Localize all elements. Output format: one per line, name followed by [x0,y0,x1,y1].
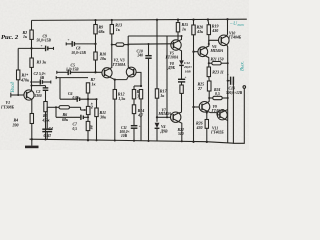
wire R13 to pill node [111,34,113,45]
wire R8 to rail [87,131,89,141]
resistor R19 [207,25,210,35]
capacitor C6 [60,92,97,102]
wire emitter feedback line [56,77,88,79]
input terminal [10,93,12,98]
transistor V3 [126,65,136,77]
ground [31,139,33,145]
wire V9 emitter to V11 base [208,111,220,115]
resistor R22b [207,81,211,91]
wire R16 link [134,85,141,87]
wire R9 to C8 node [95,34,97,52]
resistor R6 horizontal [59,106,70,109]
wire trimmer to R8b [87,115,89,122]
transistor V11 [210,110,227,134]
capacitor C8 [66,38,95,55]
resistor R3 [30,58,33,67]
wire R7 to node [87,93,89,106]
resistor R23 [207,67,210,77]
wire diode to C12 [181,65,183,79]
trimmer R8 [81,102,95,115]
transistor V2 [102,68,112,78]
svg-text:С8: С8 [76,46,81,50]
wire top link to driver [128,35,181,37]
svg-text:0,5: 0,5 [215,92,220,96]
svg-text:R3 3к: R3 3к [37,60,48,65]
resistor R1 [17,70,20,80]
capacitor C3 [32,86,49,102]
wire R15 to V5 collector [177,32,179,40]
capacitor C12 [178,78,185,80]
wire output loop [233,81,244,144]
capacitor C7 [56,115,88,131]
wire V10 collector to rail [226,19,229,36]
svg-text:+: + [68,38,70,42]
transistor V5 [165,40,182,60]
svg-text:R8: R8 [90,125,94,129]
svg-text:6В: 6В [40,76,45,80]
node rail R15 column [177,19,179,21]
svg-text:пит: пит [238,23,245,27]
wire V7 base [157,116,170,118]
wire V2 collector up [110,45,112,69]
resistor R14 pill horizontal [116,43,124,46]
svg-text:Вых.: Вых. [241,61,246,71]
svg-text:1,0×15В: 1,0×15В [66,67,79,71]
svg-text:0,5П: 0,5П [44,134,51,138]
resistor R24 0,5 pill [213,96,222,99]
wire top supply rail [32,19,247,20]
wire R4 to rail [31,124,33,140]
wire R2 to node [31,39,33,58]
wire V5 collector to top link [179,36,182,41]
wire R19 to V6 collector node [208,35,210,44]
svg-text:4,7к: 4,7к [90,102,94,109]
diode V4 [155,123,168,142]
svg-text:МП40А: МП40А [158,112,172,116]
wire R3 down to V1 collector [31,67,33,91]
resistor R12 [113,90,116,100]
wire R20 column down [193,35,195,142]
svg-text:Рис. 2: Рис. 2 [1,34,19,41]
capacitor C10 [137,43,152,142]
svg-text:R23 11: R23 11 [212,69,223,74]
svg-text:390: 390 [12,122,19,127]
node rail R13 column [111,19,113,21]
svg-text:ГТ404Б: ГТ404Б [228,35,242,39]
svg-text:0,5: 0,5 [73,127,78,131]
svg-text:Д9В: Д9В [160,129,168,133]
capacitor C5 [57,64,102,76]
wire R6 to trimmer [70,106,81,108]
transistor V6 [194,45,224,57]
wire R12 to rail [114,99,116,140]
svg-text:+: + [139,124,141,128]
wire C6 column [59,78,61,100]
capacitor C13 [226,73,243,95]
svg-text:430: 430 [211,28,218,33]
svg-text:+: + [41,44,43,48]
svg-text:50,0×15В: 50,0×15В [37,39,52,43]
resistor R5 [44,102,47,112]
capacitor C9 [18,34,53,51]
wire V3 base right [136,72,141,86]
svg-text:+: + [227,73,229,77]
svg-text:10В: 10В [185,69,192,73]
node rail R20 column [192,18,194,20]
wire V11 emitter join column [225,119,228,120]
node R26 tap [206,112,208,114]
svg-text:С13: С13 [229,87,235,91]
wire R18 to V7 collector [181,93,183,112]
svg-text:30к: 30к [99,114,107,119]
transistor V7 [158,108,182,122]
wire V1 emitter down to R4 [31,99,33,113]
resistor R21 150 pill [212,62,221,65]
node top-left corner at R2 [31,20,33,30]
wire C12 to R18 [181,82,183,85]
wire V3 emitter to shared [127,76,129,79]
diode V8 [179,60,184,65]
wire input column down to R1 [17,48,19,70]
capacitor C11 [120,114,141,142]
wire V10 base [209,40,219,44]
wire V7 emitter to rail [179,122,182,142]
svg-text:10В: 10В [121,134,128,138]
wire V6 collector up [206,44,209,48]
svg-text:ГТ402Б: ГТ402Б [210,130,224,134]
wire V6 emitter down to 150 pill [206,56,209,63]
svg-text:1,5к: 1,5к [118,96,126,101]
resistor R17 [155,89,158,98]
node rail R9 column [94,19,96,21]
resistor R15 [176,23,179,32]
resistor R16 [132,90,135,99]
resistor R18 [180,85,183,93]
wire bottom ground rail [30,139,234,143]
node rail R17 column [156,19,158,21]
svg-text:430: 430 [196,125,203,130]
resistor R15b [139,90,142,99]
wire V10 emitter down output column [226,45,229,143]
wire R22b down to V9 collector node [208,91,210,98]
svg-text:R21 150: R21 150 [211,58,224,62]
wire column 167 [166,36,168,117]
resistor R13 [110,25,113,34]
wire R11 [96,99,98,108]
node C3 tap [30,85,32,87]
svg-text:510: 510 [178,132,184,136]
svg-text:ГТ108А: ГТ108А [112,63,127,67]
node C2 tap [30,81,32,83]
wire V5 emitter down [179,49,182,60]
svg-text:МП40А: МП40А [210,49,224,53]
capacitor C4 [42,107,53,139]
wire corner to V5 base line [127,36,129,65]
svg-text:68к: 68к [99,29,106,34]
resistor R2 [30,30,33,39]
svg-text:ГТ308Б: ГТ308Б [0,105,15,109]
output terminal [243,86,246,89]
node rail R19 column [207,18,209,20]
svg-text:+: + [185,75,187,79]
resistor R9 [94,25,97,34]
resistor R8 lower [86,121,90,130]
svg-text:4,7: 4,7 [137,112,144,117]
wire mid node to R6 pill [47,106,59,108]
resistor R14b [132,105,135,114]
svg-text:470к: 470к [20,77,30,82]
wire V2 emitter to shared node [110,77,127,79]
resistor R10 [94,52,97,60]
node junction R2/R3/C9 [30,47,32,49]
wire V11 collector join output column [225,109,228,110]
resistor R11 [95,108,98,117]
transistor V9 [194,102,225,113]
wire R10 to base node [95,60,97,72]
resistor R4 [30,114,33,124]
svg-text:Вход: Вход [9,81,16,92]
wire V9 collector up to R24 node [208,98,210,103]
wire R26 to rail [206,128,208,142]
capacitor C2 [33,72,51,85]
svg-text:43к: 43к [196,29,204,34]
svg-text:С4: С4 [49,127,54,131]
svg-text:10к: 10к [100,56,107,61]
transistor V10 [219,31,242,45]
wire C7 column [55,107,57,117]
resistor R7 [86,83,89,93]
svg-text:3300: 3300 [34,94,42,98]
wire R1 to input node [17,80,19,95]
wire R17 to V7 base node [156,98,158,122]
wire R5 to rail [45,112,47,140]
svg-text:50,0×15В: 50,0×15В [72,51,87,55]
svg-text:ГТ108А: ГТ108А [165,56,179,60]
svg-text:0,05: 0,05 [73,96,79,100]
svg-text:500,0×12В: 500,0×12В [226,91,243,95]
transistor V1 [0,90,34,110]
svg-text:Д9Б: Д9Б [167,66,175,70]
resistor R20 [192,25,195,35]
resistor R26 [205,120,208,129]
svg-text:240: 240 [137,54,144,58]
